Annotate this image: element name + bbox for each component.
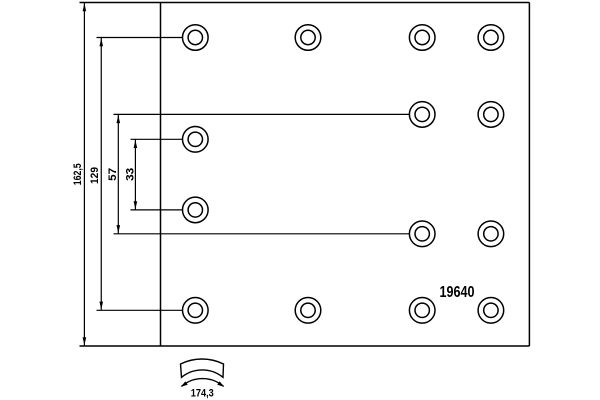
hole row1 col4 (478, 25, 504, 51)
hole row5 col4 (478, 221, 504, 247)
curved lining cross-section band (181, 359, 224, 377)
dimension line 162,5 (72, 3, 86, 347)
hole row4 col1 (183, 197, 209, 223)
dimension line 57 (107, 114, 120, 233)
wire: plate left edge (160, 3, 162, 347)
curved width arrow 174,3 (181, 379, 225, 387)
wire: leader row3 (33 top) (131, 138, 183, 140)
hole row6 col4 (478, 298, 504, 324)
brake lining plate outline (80, 3, 530, 347)
svg-text:129: 129 (89, 167, 101, 184)
hole row1 col3 (409, 25, 435, 51)
hole row6 col1 (183, 298, 209, 324)
wire: plate right edge (528, 3, 530, 347)
wire: leader row1 (129 top) (97, 37, 183, 39)
wire: plate top edge with extension to 162,5 line (80, 2, 530, 4)
dimension line 33 (124, 139, 137, 210)
rivet holes (183, 25, 504, 323)
svg-text:33: 33 (124, 168, 136, 181)
wire: leader row4 (33 bottom) (131, 209, 183, 211)
hole row6 col3 (409, 298, 435, 324)
hole row2 col4 (478, 102, 504, 128)
hole row5 col3 (409, 221, 435, 247)
hole row6 col2 (295, 298, 321, 324)
hole row1 col2 (295, 25, 321, 51)
wire: leader row2 (57 top) (114, 113, 410, 115)
svg-text:57: 57 (107, 168, 119, 181)
svg-text:19640: 19640 (440, 284, 475, 301)
wire: leader row5 (57 bottom) (114, 233, 410, 235)
dimension leader lines (97, 38, 410, 311)
dimension line 129 (89, 38, 103, 311)
wire: plate bottom edge with extension to 162,5 line (80, 345, 530, 347)
wire: leader row6 (129 bottom) (97, 309, 183, 311)
hole row1 col1 (183, 25, 209, 51)
hole row3 col1 (183, 127, 209, 153)
hole row2 col3 (409, 102, 435, 128)
svg-text:162,5: 162,5 (72, 163, 84, 185)
svg-text:174,3: 174,3 (191, 388, 214, 400)
